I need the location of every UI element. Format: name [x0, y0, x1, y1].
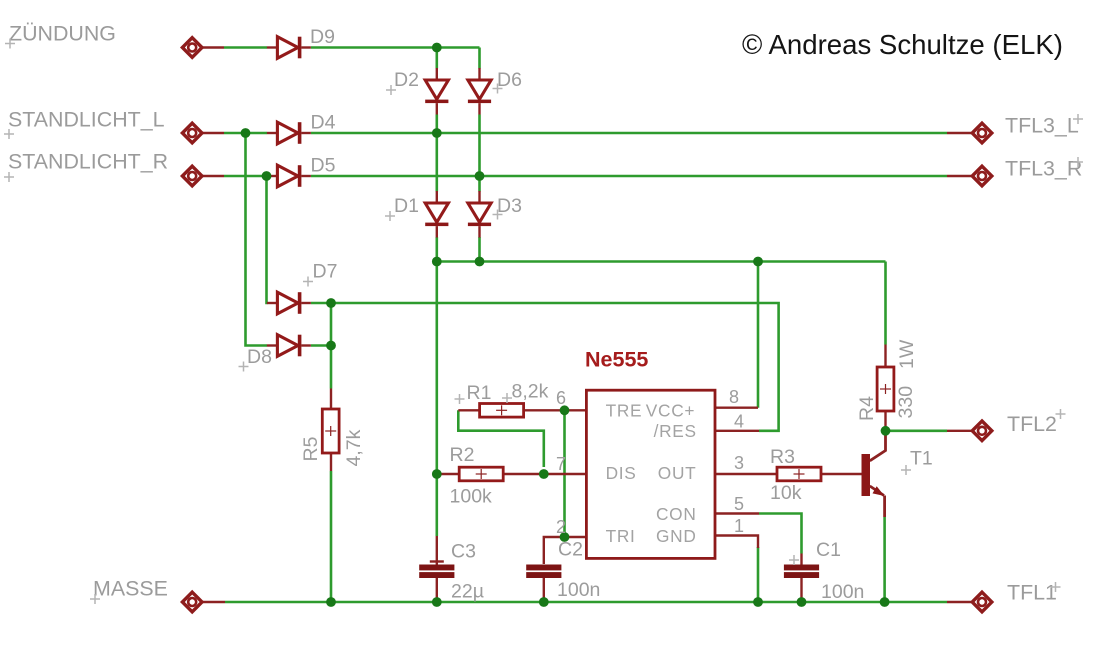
- wire TRE node down to TRI node: [563, 410, 566, 537]
- origin cross D6: [493, 84, 503, 94]
- diode D6: [468, 68, 491, 115]
- wire STANDLICHT_R row left: [203, 175, 224, 177]
- terminal pad ZÜNDUNG: [182, 38, 202, 58]
- diode D3: [468, 191, 491, 238]
- svg-text:330: 330: [895, 386, 917, 419]
- svg-text:D7: D7: [313, 261, 338, 283]
- svg-text:TFL3_R: TFL3_R: [1005, 157, 1082, 181]
- pin stub TRE pin6: [565, 409, 587, 411]
- origin cross R1: [455, 394, 465, 404]
- junction collector / TFL2: [881, 426, 891, 436]
- wire STANDLICHT_L row to TFL3_L: [311, 132, 947, 135]
- wire D7 row to pin4 riser: [311, 303, 779, 431]
- svg-text:D5: D5: [311, 155, 336, 177]
- diode D7: [267, 292, 311, 314]
- wire D3 column above: [478, 176, 481, 192]
- svg-text:TRE: TRE: [606, 401, 643, 421]
- wire R5 bottom to MASSE row: [330, 471, 333, 602]
- pin stub VCC pin8: [715, 407, 758, 409]
- junction MASSE at emitter: [880, 597, 890, 607]
- svg-text:6: 6: [556, 388, 566, 408]
- svg-text:OUT: OUT: [658, 463, 697, 483]
- pin stub R4 top: [884, 345, 886, 369]
- wire ZÜNDUNG row right of D9: [311, 46, 480, 49]
- resistor R2: [459, 467, 503, 481]
- svg-text:GND: GND: [656, 526, 697, 546]
- svg-text:R1: R1: [467, 382, 492, 404]
- wire D1 bottom to junction row: [435, 237, 438, 262]
- pin stub C2 top elbow: [544, 537, 565, 564]
- origin cross D1: [385, 211, 395, 221]
- wire column from STANDLICHT_R junction down to D7 row: [267, 176, 268, 303]
- svg-text:100k: 100k: [450, 486, 493, 508]
- pin stub C3 top: [436, 536, 438, 565]
- wire D3 bottom to junction row: [478, 237, 481, 262]
- polarity mark C3 plus: [430, 560, 444, 562]
- svg-text:D2: D2: [394, 69, 419, 91]
- wire VCC junction row: [437, 260, 886, 263]
- wire VCC row down to R4: [884, 262, 887, 345]
- svg-text:D4: D4: [311, 112, 336, 134]
- svg-text:C3: C3: [451, 541, 476, 563]
- wire D7 junction down to D8 junction: [330, 303, 333, 346]
- IC U1 NE555 timer box: [586, 390, 715, 558]
- svg-text:R4: R4: [856, 396, 878, 421]
- svg-text:4,7k: 4,7k: [343, 429, 365, 466]
- pin stub R4 bottom: [884, 410, 886, 431]
- wire pin1 drop to MASSE row: [757, 547, 760, 602]
- svg-text:C2: C2: [558, 539, 583, 561]
- wire D1 column above: [435, 133, 438, 192]
- junction DIS node left: [432, 469, 442, 479]
- pin stub R2 left: [437, 473, 460, 475]
- wire column D2 top: [435, 48, 438, 69]
- pin stub R1 left: [458, 409, 479, 411]
- terminal pad TFL3_L: [972, 123, 992, 143]
- pin stub TRI pin2: [565, 536, 587, 538]
- resistor R4: [877, 367, 894, 411]
- wire STANDLICHT_L row left: [203, 132, 224, 134]
- pin stub C2 bottom: [543, 578, 545, 602]
- svg-text:TFL1: TFL1: [1007, 581, 1057, 605]
- resistor R5: [322, 409, 339, 453]
- wire column D6 top: [478, 48, 481, 69]
- svg-text:D9: D9: [310, 26, 335, 48]
- capacitor C1: [784, 565, 819, 579]
- pin stub OUT pin3: [715, 473, 778, 475]
- wire D8 junction down to R5: [330, 346, 333, 389]
- junction TRE node: [560, 405, 570, 415]
- origin cross ZÜNDUNG: [5, 39, 15, 49]
- svg-text:100n: 100n: [821, 581, 864, 603]
- wire collector junction to TFL2: [886, 429, 948, 432]
- pin stub /RES pin4: [715, 430, 759, 432]
- svg-text:Ne555: Ne555: [585, 348, 648, 372]
- wire D6 bottom to STANDLICHT_R row: [478, 115, 481, 177]
- svg-text:TFL3_L: TFL3_L: [1005, 114, 1079, 138]
- svg-text:5: 5: [734, 494, 744, 514]
- capacitor C3: [419, 565, 454, 579]
- terminal pad STANDLICHT_L: [182, 123, 202, 143]
- junction DIS node right: [539, 469, 549, 479]
- svg-text:/RES: /RES: [654, 421, 697, 441]
- origin cross TFL3_R: [1073, 157, 1083, 167]
- svg-text:D8: D8: [247, 346, 272, 368]
- junction STANDLICHT_R tap: [262, 171, 272, 181]
- svg-text:1W: 1W: [896, 339, 918, 369]
- svg-text:D6: D6: [497, 69, 522, 91]
- resistor R1: [480, 404, 524, 418]
- wire pin5 to C1: [759, 514, 802, 554]
- origin cross TFL1: [1051, 582, 1061, 592]
- pin stub R5 bottom: [330, 453, 332, 471]
- junction MASSE at C2: [539, 597, 549, 607]
- svg-text:VCC+: VCC+: [646, 401, 695, 421]
- svg-text:R3: R3: [770, 446, 795, 468]
- junction VCC row at D3: [475, 257, 485, 267]
- junction STANDLICHT_R / D6-D3 column: [475, 171, 485, 181]
- resistor R3: [777, 467, 821, 481]
- svg-text:R5: R5: [300, 436, 322, 461]
- diode D5: [267, 165, 311, 187]
- origin cross T1: [901, 465, 911, 475]
- terminal pad TFL2: [972, 421, 992, 441]
- pin stub R2 right to DIS node: [503, 473, 544, 475]
- pin stub R3 right to base: [821, 473, 863, 475]
- wire emitter down to MASSE row: [883, 517, 886, 602]
- origin cross 8,2k: [502, 393, 512, 403]
- svg-text:C1: C1: [816, 539, 841, 561]
- svg-text:R2: R2: [450, 444, 475, 466]
- diode D1: [425, 191, 448, 238]
- svg-text:8,2k: 8,2k: [512, 381, 549, 403]
- svg-text:T1: T1: [910, 448, 933, 470]
- svg-text:TFL2: TFL2: [1007, 412, 1057, 436]
- svg-text:2: 2: [556, 517, 566, 537]
- terminal pad MASSE (ground): [182, 592, 202, 612]
- terminal pad TFL3_R: [972, 166, 992, 186]
- svg-text:© Andreas Schultze (ELK): © Andreas Schultze (ELK): [742, 29, 1063, 60]
- junction ZÜNDUNG-D2 column: [432, 43, 442, 53]
- wire STANDLICHT_R row to TFL3_R: [311, 175, 947, 178]
- svg-text:MASSE: MASSE: [93, 577, 168, 601]
- wire ZÜNDUNG row left: [203, 46, 224, 48]
- svg-text:TRI: TRI: [606, 526, 636, 546]
- svg-text:DIS: DIS: [606, 463, 637, 483]
- svg-text:STANDLICHT_L: STANDLICHT_L: [8, 108, 165, 132]
- pin stub C1 top: [800, 554, 802, 566]
- svg-text:D1: D1: [394, 195, 419, 217]
- pin stub R1 right: [524, 409, 565, 411]
- origin cross STANDLICHT_L: [4, 129, 14, 139]
- svg-text:ZÜNDUNG: ZÜNDUNG: [9, 22, 116, 46]
- capacitor C2: [526, 565, 561, 579]
- pin stub DIS pin7: [544, 473, 587, 475]
- diode D4: [267, 122, 311, 144]
- wire MASSE row: [203, 601, 225, 603]
- pin stub C1 bottom: [800, 578, 802, 602]
- wire R1 left elbow to DIS node: [458, 410, 544, 467]
- svg-text:CON: CON: [656, 504, 697, 524]
- junction STANDLICHT_L / D2-D1 column: [432, 128, 442, 138]
- svg-text:D3: D3: [497, 195, 522, 217]
- wire column from STANDLICHT_L junction down to D8 row: [246, 133, 268, 346]
- pin stub C3 bottom: [436, 578, 438, 602]
- diode D2: [425, 68, 448, 115]
- terminal pad STANDLICHT_R: [182, 166, 202, 186]
- junction VCC row at D1: [432, 257, 442, 267]
- junction MASSE at C3: [432, 597, 442, 607]
- svg-text:8: 8: [729, 387, 739, 407]
- pin stub CON pin5: [715, 512, 759, 514]
- origin cross TFL2: [1056, 409, 1066, 419]
- junction D7 output: [326, 298, 336, 308]
- svg-text:7: 7: [556, 454, 566, 474]
- pin stub GND pin1: [715, 536, 758, 549]
- svg-text:22µ: 22µ: [451, 581, 484, 603]
- junction MASSE at C1: [797, 597, 807, 607]
- wire D2 bottom to STANDLICHT_L row: [435, 115, 438, 134]
- transistor T1: [862, 431, 886, 517]
- junction MASSE at R5: [326, 597, 336, 607]
- junction TRI node: [560, 532, 570, 542]
- origin cross STANDLICHT_R: [4, 172, 14, 182]
- junction VCC row at pin8 riser: [753, 257, 763, 267]
- svg-text:100n: 100n: [557, 579, 600, 601]
- svg-text:1: 1: [734, 516, 744, 536]
- diode D8: [267, 335, 311, 357]
- wire VCC column down to C3: [435, 262, 438, 537]
- pin stub R5 top: [330, 389, 332, 410]
- origin cross MASSE: [90, 594, 100, 604]
- svg-text:4: 4: [734, 412, 744, 432]
- wire pin8 riser to VCC row: [757, 262, 760, 408]
- origin cross D7: [303, 277, 313, 287]
- junction STANDLICHT_L tap: [241, 128, 251, 138]
- origin cross C1: [789, 555, 799, 565]
- junction MASSE at pin1: [753, 597, 763, 607]
- origin cross D3: [493, 210, 503, 220]
- origin cross D8: [239, 362, 249, 372]
- terminal pad TFL1: [972, 592, 992, 612]
- svg-text:10k: 10k: [770, 482, 802, 504]
- origin cross D2: [386, 85, 396, 95]
- wire D8 cathode to junction: [311, 344, 331, 347]
- junction D8 output: [326, 341, 336, 351]
- origin cross TFL3_L: [1073, 114, 1083, 124]
- svg-text:3: 3: [734, 453, 744, 473]
- diode D9: [267, 37, 311, 59]
- svg-text:STANDLICHT_R: STANDLICHT_R: [8, 150, 168, 174]
